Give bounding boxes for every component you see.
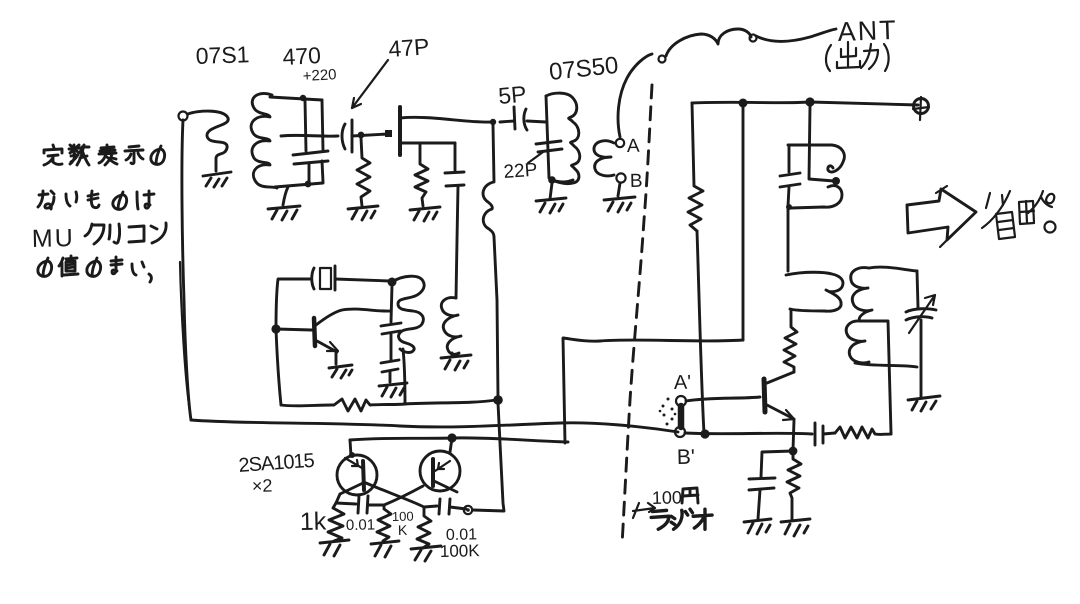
ground of C11 [379, 383, 407, 397]
svg-text:47P: 47P [388, 33, 431, 62]
label 5P [497, 81, 527, 109]
Q3 emitter with arrow [767, 405, 794, 450]
coupling stage bar C3 [398, 107, 402, 155]
note line2: ないものは [38, 191, 154, 209]
capacitor C5 5P [500, 107, 546, 130]
wire: osc loop left side [276, 279, 311, 405]
label +220 [302, 66, 337, 85]
Q3 collector wire [767, 372, 794, 383]
dashed boundary line [622, 85, 652, 545]
wire down from 5P junction with choke L2 [483, 125, 498, 398]
resistor R4 collector [784, 310, 797, 372]
capacitor C6 22P [536, 141, 562, 152]
transformer T1 primary winding [251, 93, 277, 188]
note line4: の値のまま [38, 256, 152, 282]
svg-text:100K: 100K [440, 541, 481, 561]
ground of R2 [410, 207, 440, 221]
wire from T1 bottom to ground [283, 187, 288, 205]
multivibrator supply rail [350, 438, 568, 442]
wire: rail from multivib to bus vertical [563, 338, 743, 443]
tank coil L4 [788, 145, 844, 208]
note line1: 定数表示の [44, 145, 165, 165]
note line3: MUクリコン [32, 223, 167, 253]
T3 secondary bottom wire [855, 363, 917, 367]
variable capacitor VC1 [906, 271, 936, 397]
wire C13 to vertical riser [473, 403, 504, 511]
wire Q4 node to cap [336, 503, 356, 504]
ground of T2 [536, 198, 566, 213]
transformer T2 primary winding [546, 93, 580, 184]
cross wire: C12 to Q5 [384, 486, 423, 505]
wire R3 down to B' line [697, 231, 704, 433]
pickup coil L1 [188, 111, 228, 171]
ground of T1 [268, 206, 300, 220]
label 0.01 right [446, 526, 478, 544]
ground of R9 [371, 541, 399, 557]
label 省略 [982, 191, 1056, 239]
wire A' to Q3 base [686, 397, 760, 401]
wire: C3 top to 5P junction [400, 117, 492, 122]
ground of VC1 [908, 396, 940, 411]
terminal B [616, 173, 625, 182]
terminal A' [676, 396, 686, 406]
transformer T3 secondary upper [851, 268, 872, 321]
capacitor C12 0.01 [358, 496, 384, 513]
capacitor C4 [445, 143, 464, 298]
cross wire: Q4 to C13 [366, 483, 437, 507]
label B [630, 171, 643, 192]
wire Q4 to 1K resistor [336, 494, 340, 503]
transformer T3 primary [786, 272, 843, 311]
junction node on B' line [700, 429, 709, 438]
svg-text:+220: +220 [302, 66, 337, 85]
rail: tank to T3 [787, 208, 790, 271]
wire: vertical from bus to output rail [742, 103, 745, 340]
connector circle on C13 wire [464, 506, 472, 514]
capacitor C1 (470+220) [293, 100, 328, 184]
svg-text:5P: 5P [497, 81, 527, 109]
wire B' line to series cap [685, 433, 812, 434]
T3 secondary top wire [869, 267, 917, 271]
capacitor C10 [381, 285, 401, 334]
ground of C8 [744, 519, 771, 534]
label (出力) [826, 42, 889, 71]
label 07S1 [195, 41, 250, 69]
label ANT [837, 15, 898, 47]
label A' [674, 372, 692, 394]
T1 top wire with node [270, 95, 322, 101]
speckle marks at connector [659, 398, 677, 426]
resistor R9 100K [377, 505, 391, 541]
svg-text:470: 470 [282, 42, 322, 70]
ground of Q2 emitter [329, 365, 352, 378]
series resistor R6 [835, 427, 891, 438]
label 0.01 left [346, 516, 376, 534]
junction node at 5P [490, 119, 496, 125]
osc bottom wire with resistor R7 [281, 399, 405, 411]
tap wire from bus into L4 [809, 106, 840, 185]
resistor R3 [688, 103, 703, 231]
junction node on bus [805, 97, 814, 106]
ground of L8 [441, 355, 471, 370]
resistor R10 100K [417, 507, 431, 548]
svg-text:K: K [398, 522, 408, 538]
label A [627, 136, 640, 157]
wire L8 to ground [451, 353, 454, 356]
tank capacitor C7 [780, 147, 800, 210]
capacitor C11 [381, 334, 399, 382]
T1 right side rail [322, 100, 323, 150]
wire rail to Q4 [349, 440, 355, 458]
wire: input vertical down to bottom bus [180, 120, 191, 420]
antenna wire with loops [618, 29, 836, 137]
T2 bottom node [548, 176, 573, 184]
connector bar between A' and B' [678, 406, 685, 427]
wire: L7 bottom down [403, 349, 405, 404]
label 22P with leader [503, 152, 543, 183]
junction node main [493, 395, 503, 405]
ground of R5 [781, 519, 810, 536]
transistor Q5 (2SA1015) [420, 451, 460, 492]
wire: T3 tap down to output network [888, 321, 891, 433]
Q2 emitter with arrow [317, 341, 338, 364]
wire rail to Q5 [450, 438, 452, 452]
label 100K mid [392, 509, 414, 538]
transistor Q2 base bar [314, 318, 315, 346]
junction node on bus [739, 99, 748, 108]
crystal X1 [312, 266, 390, 290]
block arrow (omitted) [907, 186, 976, 247]
svg-text:2SA1015: 2SA1015 [238, 450, 316, 477]
Q2 base wire [276, 329, 312, 330]
terminal B' [675, 427, 685, 437]
svg-text:×2: ×2 [252, 476, 273, 496]
svg-text:B': B' [677, 446, 696, 469]
Q2 collector wire to rail [316, 309, 391, 325]
capacitor C2 47P [342, 120, 352, 152]
label 470 [282, 42, 322, 70]
ground of R10 [411, 546, 441, 561]
label ラジオ [651, 509, 712, 529]
svg-text:ANT: ANT [837, 15, 898, 47]
T3 mid connector [860, 320, 887, 323]
ground of L1 [203, 172, 231, 187]
svg-text:MU: MU [32, 224, 75, 253]
coil L8 [441, 298, 461, 355]
series capacitor C9 [815, 423, 835, 445]
wire R6 up to T3 tap handled in topright [890, 433, 893, 434]
transistor Q4 (2SA1015) [337, 455, 377, 495]
wire: T1 to C2 [281, 134, 338, 138]
svg-text:0.01: 0.01 [346, 516, 376, 534]
ground of R1 [348, 206, 378, 220]
wire: osc bottom to main junction [405, 400, 496, 404]
arrow marker near 100yen radio [633, 503, 655, 518]
resistor R5 emitter [787, 454, 801, 519]
transistor Q3 base bar [764, 379, 765, 412]
resistor R2 [415, 143, 428, 206]
terminal A [616, 139, 624, 147]
wire emitter node to C8 [761, 451, 793, 477]
ground of B [604, 197, 635, 212]
label 2SA1015 x2 [238, 450, 316, 496]
resistor R8 1K [328, 503, 344, 541]
svg-text:A: A [627, 136, 640, 157]
svg-text:A': A' [674, 372, 692, 394]
label 100K right [440, 541, 481, 561]
junction node [358, 132, 365, 139]
junction node at emitter [789, 447, 798, 456]
wire: C3 mid branch [401, 142, 455, 145]
junction blob at C3 [385, 130, 392, 137]
ground of R8 [320, 540, 349, 556]
top supply bus [692, 102, 918, 105]
T1 bottom wire with node [275, 181, 323, 188]
input terminal [179, 112, 188, 121]
junction node on osc left rail [271, 324, 280, 333]
oscillator coil L7 [392, 276, 424, 352]
wire T2 node to ground [550, 183, 552, 199]
label 1k [300, 507, 327, 536]
transformer T2 secondary winding [594, 141, 614, 176]
svg-text:100: 100 [652, 487, 682, 508]
svg-text:1k: 1k [300, 507, 327, 536]
svg-text:07S50: 07S50 [548, 52, 620, 86]
label 47P with arrow [352, 33, 430, 108]
wire: long bottom bus to B' [191, 420, 678, 432]
svg-text:22P: 22P [503, 160, 538, 183]
junction node on rail [447, 433, 456, 442]
capacitor C13 0.01 [439, 499, 466, 514]
svg-text:B: B [630, 171, 643, 192]
capacitor C8 [749, 478, 775, 519]
wire: C2 to junction [352, 134, 388, 136]
wire B to ground [618, 183, 620, 196]
transformer T3 secondary lower [846, 321, 869, 363]
svg-text:07S1: 07S1 [195, 41, 250, 69]
label 100円 [652, 487, 698, 508]
resistor R1 [357, 138, 370, 206]
label B' [677, 446, 696, 469]
antenna terminal [913, 97, 929, 120]
label 07S50 [548, 52, 620, 86]
junction node at X1 right [388, 278, 397, 287]
